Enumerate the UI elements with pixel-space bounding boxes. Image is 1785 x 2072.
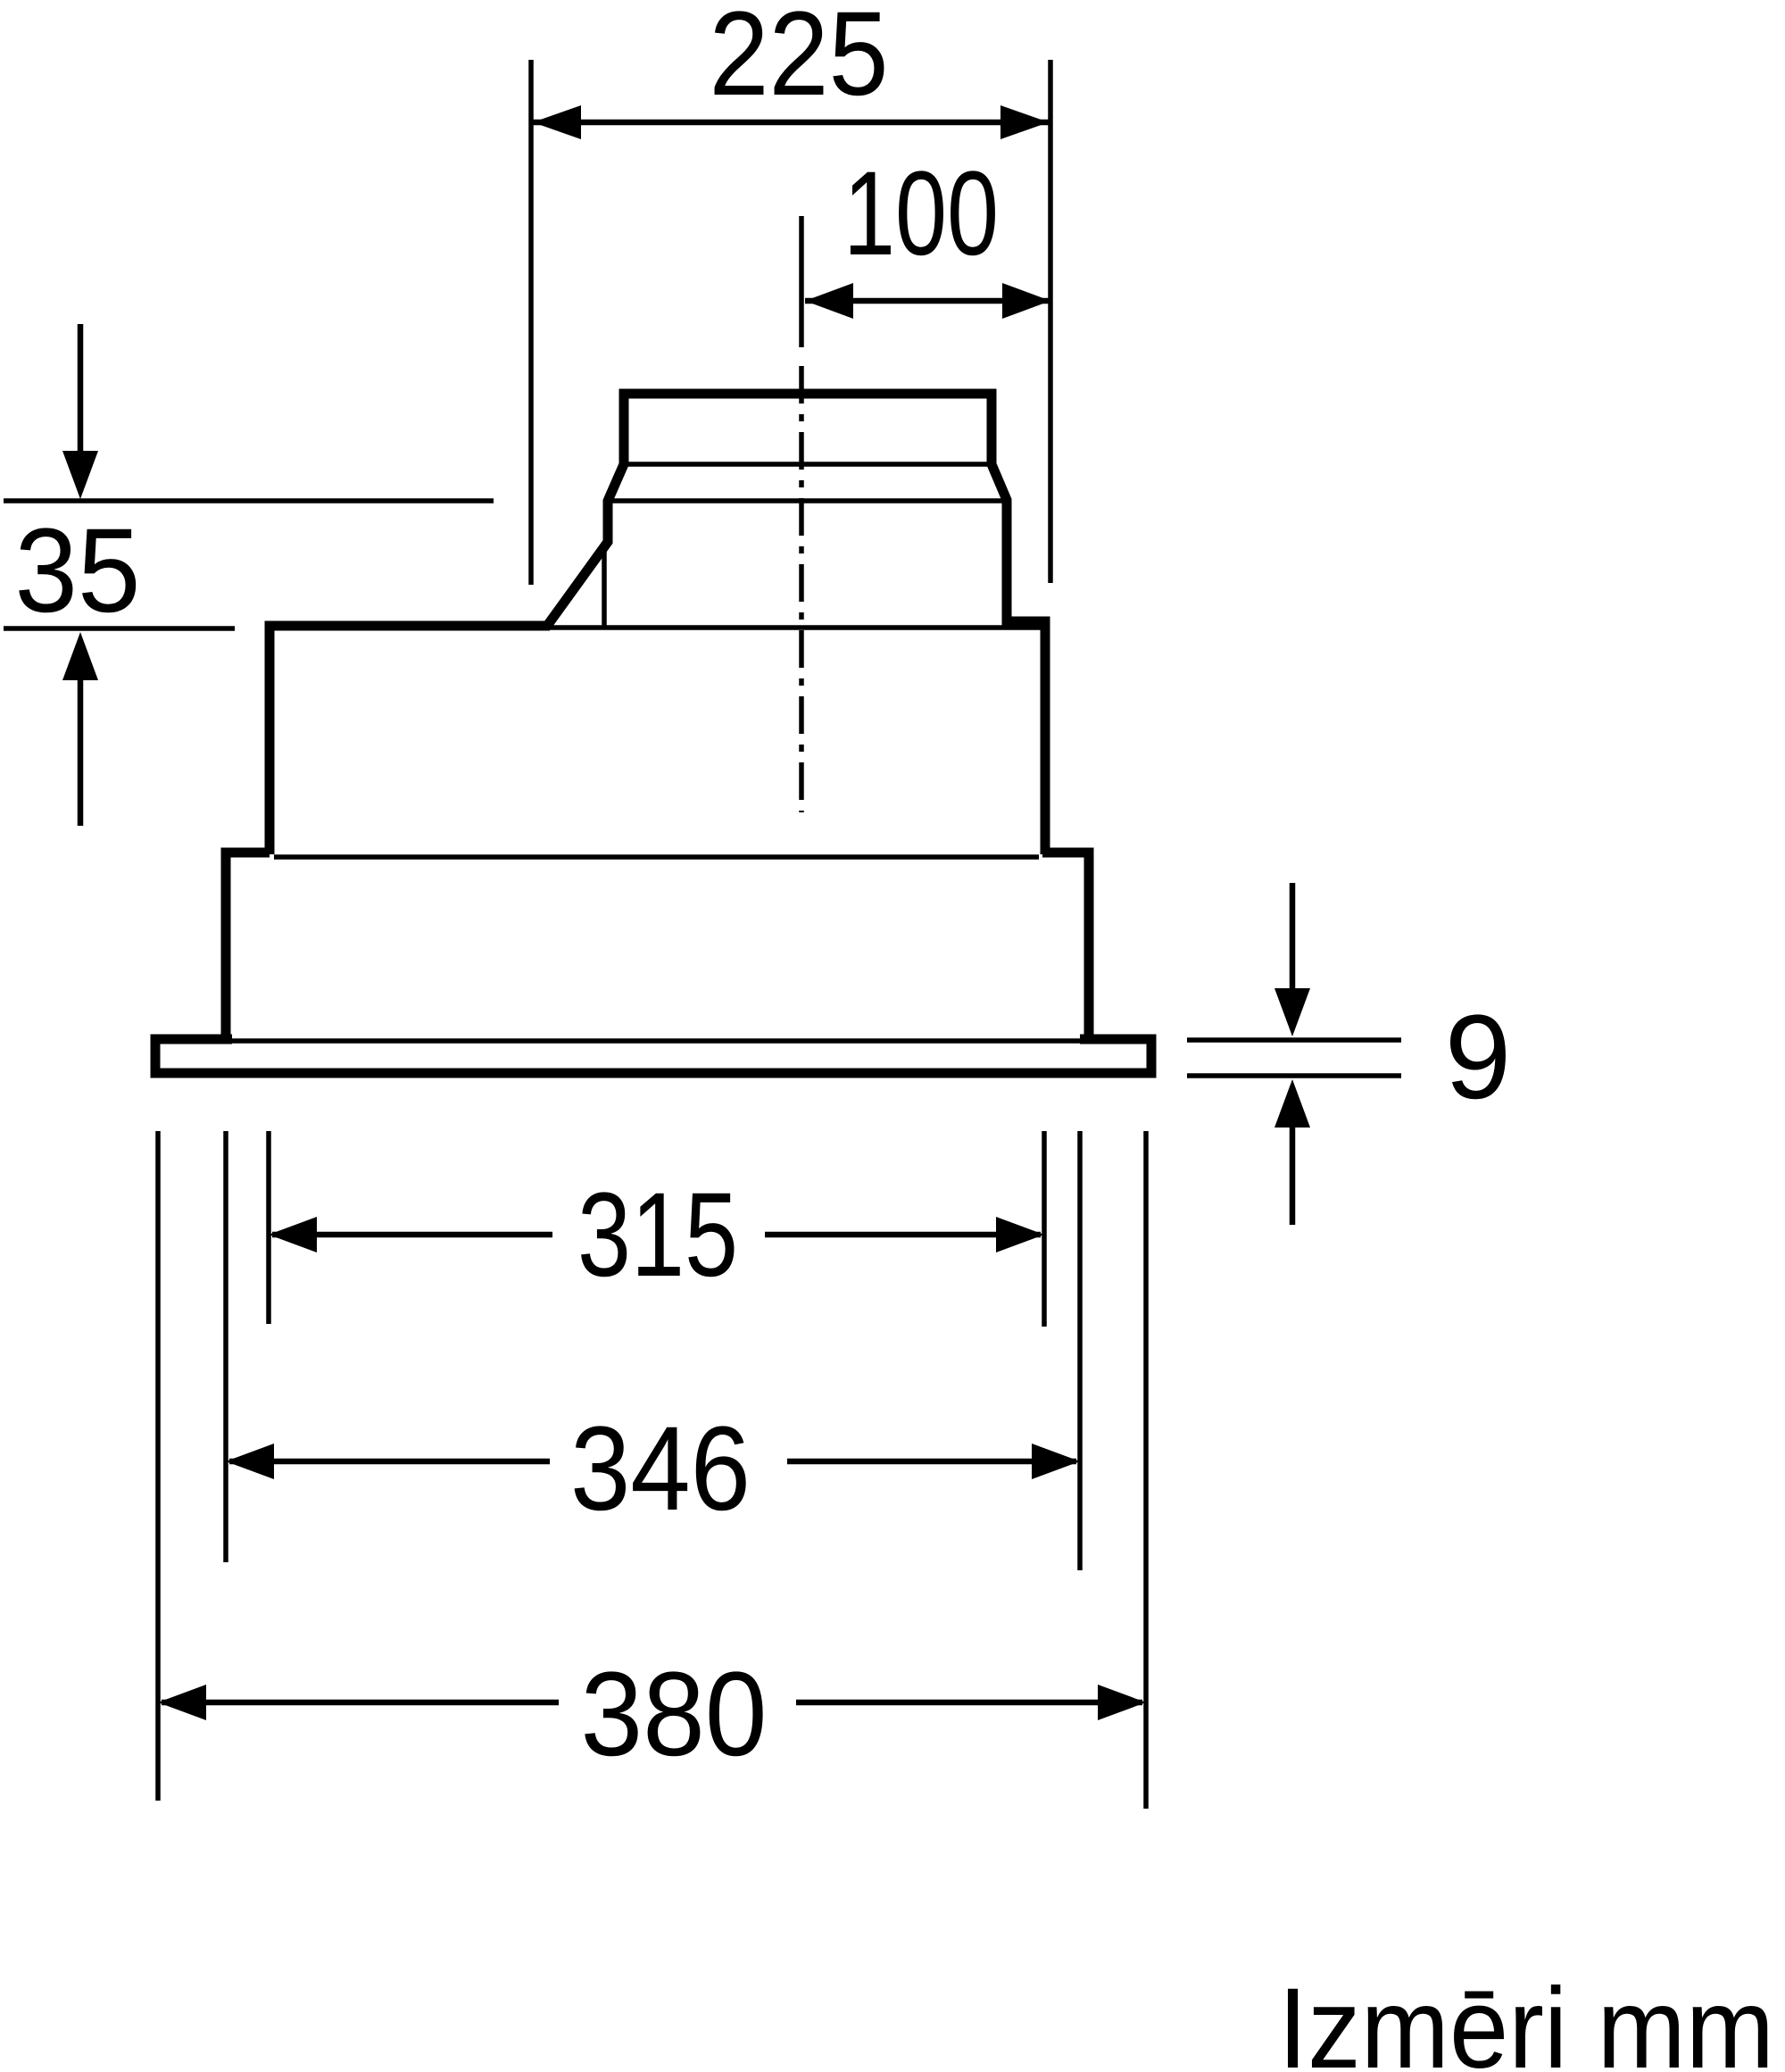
svg-text:100: 100 (843, 147, 999, 280)
svg-text:225: 225 (710, 0, 889, 121)
svg-text:315: 315 (577, 1169, 738, 1302)
svg-text:Izmēri mm: Izmēri mm (1278, 1965, 1774, 2072)
svg-text:346: 346 (570, 1402, 751, 1535)
svg-text:35: 35 (15, 504, 141, 637)
svg-text:9: 9 (1445, 991, 1512, 1124)
svg-text:380: 380 (581, 1648, 768, 1781)
